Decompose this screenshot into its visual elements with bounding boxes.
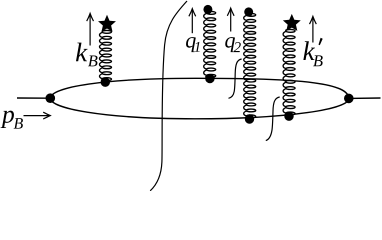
gluon q_2 — [244, 13, 256, 117]
vertex: q_1 attaches to blob — [205, 74, 214, 83]
star vertex on k_B — [98, 15, 116, 32]
arrow: q_2 momentum — [230, 8, 232, 31]
vertex: proton line right — [344, 94, 354, 104]
label k_B-prime — [303, 41, 315, 60]
hadron blob (ellipse) — [50, 78, 349, 119]
wire: incoming proton line left — [17, 97, 50, 99]
vertex: q_1 upper end — [203, 5, 212, 14]
vertex: q_2 upper end — [244, 7, 253, 16]
arrow: k_B momentum — [89, 14, 91, 46]
cut mark on upper spectator line — [229, 59, 242, 98]
final-state cut line — [150, 1, 187, 191]
gluon q_1 — [204, 11, 216, 77]
label p_B — [1, 111, 14, 128]
gluon k_B — [100, 30, 112, 80]
star vertex on k_B-prime — [283, 14, 301, 31]
label q_2 — [225, 37, 235, 52]
gluon k_B-prime — [283, 29, 295, 114]
cut mark on lower spectator line — [266, 97, 280, 141]
vertex: k_B-prime lower end — [284, 112, 293, 121]
vertex: q_2 lower end — [245, 114, 254, 123]
arrow: q_1 momentum — [191, 9, 193, 34]
vertex: k_B attaches to blob — [101, 78, 110, 87]
label q_1 — [186, 37, 196, 52]
label k_B — [76, 43, 88, 62]
vertex: proton line left — [46, 93, 56, 103]
wire: outgoing proton line right — [349, 97, 381, 99]
arrow: p_B momentum — [24, 115, 50, 117]
arrow: k_B-prime momentum — [312, 17, 314, 43]
